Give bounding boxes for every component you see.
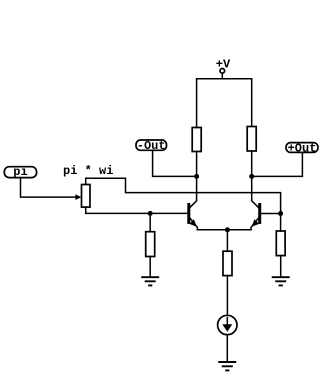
svg-text:-Out: -Out <box>137 139 166 153</box>
svg-text:pi * wi: pi * wi <box>63 164 113 178</box>
resistor R5 <box>223 251 232 275</box>
wire pot top to Q2 base <box>86 178 281 213</box>
ground GND2 <box>272 277 290 285</box>
label pi <box>4 165 36 179</box>
ground GND3 <box>218 362 236 370</box>
supply +V label <box>216 57 231 71</box>
resistor R4 <box>276 231 285 256</box>
current source I1 arrow <box>222 318 232 332</box>
supply +V terminal circle <box>220 69 225 74</box>
resistor R1 <box>192 128 201 152</box>
node N4 junction <box>148 211 153 216</box>
wire N5 to R4 <box>280 214 282 232</box>
transistor Q2 emitter lead <box>251 218 258 230</box>
wire emitter bus <box>197 229 251 231</box>
wire R2 to node N2 <box>251 151 253 176</box>
transistor Q2 base bar <box>258 203 261 224</box>
wire top rail <box>197 78 252 80</box>
transistor Q1 emitter arrowhead <box>189 219 197 227</box>
node N3 junction <box>225 227 230 232</box>
label pi * wi <box>63 164 113 178</box>
wire +V stub <box>221 73 223 79</box>
node N5 junction <box>278 211 283 216</box>
resistor R2 <box>247 127 256 152</box>
wire N4 to R3 <box>149 213 151 231</box>
wire N3 to R5 <box>226 230 228 251</box>
node N1 junction <box>194 174 199 179</box>
wire rail to R2 <box>251 79 253 127</box>
label +Out <box>286 141 318 155</box>
current source I1 circle <box>218 315 237 334</box>
ground GND1 <box>141 277 159 285</box>
transistor Q2 collector lead <box>252 176 259 207</box>
resistor R3 <box>146 232 155 257</box>
wire R3 to ground <box>149 257 151 278</box>
wire R1 to node N1 <box>196 152 198 177</box>
wire R4 to ground <box>280 256 282 278</box>
wire rail to R1 <box>196 79 198 128</box>
node N2 junction <box>249 174 254 179</box>
label -Out <box>136 139 167 153</box>
transistor Q2 emitter arrowhead <box>252 219 260 227</box>
potentiometer P1 body <box>82 185 91 208</box>
wire I1 to ground <box>226 335 228 362</box>
wire R5 to current source I1 <box>226 276 228 316</box>
wire pot bottom to Q1 base <box>86 207 188 213</box>
wire -Out to node N1 <box>153 150 197 176</box>
potentiometer wiper arrowhead <box>75 194 81 200</box>
wire +Out to node N2 <box>252 152 303 176</box>
transistor Q1 collector lead <box>190 176 197 207</box>
transistor Q1 emitter lead <box>190 218 197 230</box>
transistor Q1 base bar <box>187 203 190 224</box>
wire pi to potentiometer wiper <box>21 178 76 198</box>
